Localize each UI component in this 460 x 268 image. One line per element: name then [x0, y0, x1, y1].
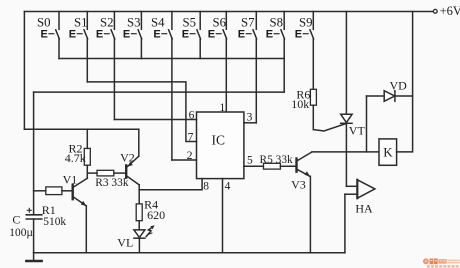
switch S7 — [253, 12, 257, 123]
wire IC pin 6 from S2 — [114, 119, 196, 121]
svg-text:1: 1 — [220, 102, 226, 114]
svg-text:R1: R1 — [42, 203, 56, 217]
wire top +6V bus — [24, 11, 433, 13]
switch S5 — [197, 12, 201, 59]
svg-text:C: C — [12, 212, 20, 226]
svg-text:5: 5 — [247, 154, 253, 166]
svg-text:S5: S5 — [183, 16, 197, 30]
wire ground bus bottom — [34, 252, 345, 254]
wire R6 bottom — [312, 105, 314, 129]
svg-text:E: E — [41, 29, 48, 41]
switch S4 — [169, 12, 173, 161]
svg-text:E: E — [96, 29, 103, 41]
wire left bus vertical — [23, 12, 25, 130]
svg-text:S4: S4 — [151, 16, 165, 30]
svg-text:VL: VL — [117, 235, 133, 249]
svg-text:V1: V1 — [63, 172, 78, 186]
svg-text:E: E — [208, 29, 215, 41]
svg-text:+6V: +6V — [440, 4, 460, 18]
resistor R3 — [97, 170, 114, 176]
resistor R1 — [46, 187, 62, 195]
wire R4 to VL — [138, 221, 140, 230]
svg-text:100µ: 100µ — [9, 227, 33, 239]
svg-text:S7: S7 — [241, 16, 255, 30]
wire R2 bottom to V1 collector node — [86, 165, 88, 178]
svg-text:VT: VT — [349, 123, 366, 137]
svg-text:HA: HA — [355, 202, 373, 216]
switch S2 — [111, 12, 115, 120]
svg-text:10k: 10k — [291, 97, 309, 111]
svg-text:E: E — [266, 29, 273, 41]
svg-text:S6: S6 — [213, 16, 227, 30]
svg-text:2: 2 — [187, 150, 193, 162]
transistor V1 — [73, 178, 88, 253]
svg-text:S0: S0 — [37, 16, 51, 30]
svg-text:3: 3 — [247, 112, 253, 124]
wire S0/S3/S5 bus y58.5 — [59, 58, 284, 60]
wire R3 to V2 base — [114, 172, 125, 174]
transistor V3 — [297, 152, 312, 253]
relay K — [379, 139, 397, 165]
svg-text:E: E — [238, 29, 245, 41]
switch S3 — [138, 12, 142, 59]
switch S8 — [281, 12, 285, 93]
svg-text:S3: S3 — [127, 16, 141, 30]
switch S6 — [223, 12, 227, 113]
wire R2 top — [86, 129, 88, 148]
wire R1 left — [34, 190, 46, 192]
resistor R5 — [264, 163, 281, 169]
svg-text:VD: VD — [390, 79, 408, 93]
resistor R6 — [310, 89, 316, 105]
svg-text:S9: S9 — [299, 16, 313, 30]
svg-text:S1: S1 — [74, 16, 88, 30]
svg-text:V2: V2 — [120, 150, 135, 164]
thyristor VT — [314, 12, 353, 187]
svg-text:V3: V3 — [291, 177, 306, 191]
wire IC pin 4 to ground — [222, 179, 224, 253]
svg-text:R5 33k: R5 33k — [260, 154, 294, 166]
watermark logo — [423, 258, 460, 267]
wire R5 to V3 base — [280, 165, 295, 167]
svg-text:4: 4 — [225, 180, 231, 192]
wire +6V inner horizontal to V2 emitter — [24, 128, 138, 130]
svg-text:E: E — [295, 29, 302, 41]
wire IC pin 3 from S7 — [244, 122, 256, 124]
ground symbol — [26, 253, 41, 261]
wire long line y92 to R1 branch — [34, 91, 285, 93]
svg-text:E: E — [123, 29, 130, 41]
node +6V terminal — [433, 9, 437, 13]
svg-text:S2: S2 — [100, 16, 114, 30]
switch S9 — [310, 12, 314, 90]
buzzer HA — [345, 180, 375, 253]
svg-text:E: E — [153, 29, 160, 41]
svg-text:IC: IC — [212, 132, 226, 147]
switch S1 — [84, 12, 88, 82]
wire IC pin 2 from S4 — [172, 159, 197, 161]
wire IC pin 8 to V2 collector — [139, 179, 202, 190]
wire V3 collector to relay K — [312, 151, 379, 153]
switch S0 — [56, 12, 60, 59]
svg-text:4.7k: 4.7k — [65, 151, 86, 165]
wire IC pin 5 — [244, 165, 264, 167]
svg-text:7: 7 — [188, 131, 194, 143]
diode VD — [367, 91, 413, 152]
IC box — [197, 112, 244, 179]
svg-text:K: K — [383, 144, 393, 159]
transistor V2 pnp — [126, 129, 139, 204]
svg-text:S8: S8 — [270, 16, 284, 30]
svg-text:510k: 510k — [43, 216, 66, 228]
svg-text:R3 33k: R3 33k — [95, 177, 129, 189]
resistor R4 — [136, 204, 142, 221]
wire IC pin 7 from S1 — [87, 82, 196, 142]
wire vertical x33.6 down to capacitor — [33, 92, 35, 214]
wire V1 collector node to R3 — [87, 172, 97, 174]
svg-text:E: E — [182, 29, 189, 41]
svg-text:8: 8 — [203, 180, 209, 192]
LED VL — [134, 225, 155, 252]
wire R1 right to V1 base — [62, 190, 72, 192]
resistor R2 — [84, 148, 90, 165]
capacitor C electrolytic — [26, 208, 42, 253]
svg-text:6: 6 — [189, 110, 195, 122]
svg-text:620: 620 — [147, 208, 165, 222]
wire K right to +6V rail — [397, 12, 413, 152]
svg-text:E: E — [69, 29, 76, 41]
